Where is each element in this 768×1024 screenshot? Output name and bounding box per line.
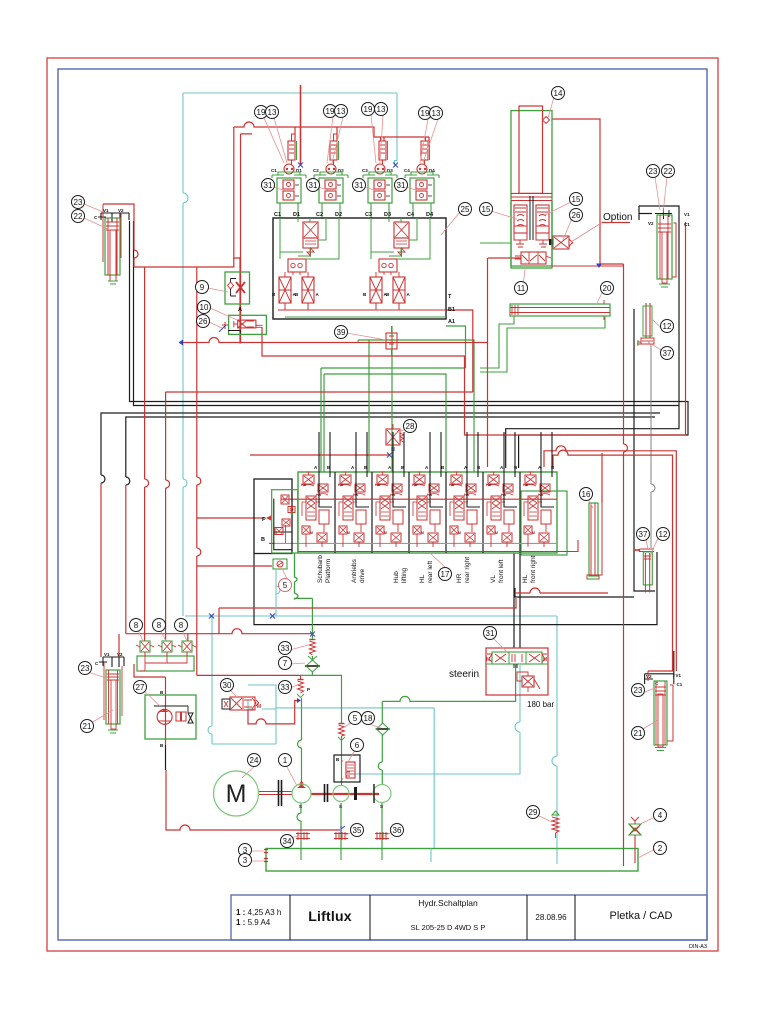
svg-text:13: 13 [377,105,386,114]
svg-text:12: 12 [659,530,668,539]
svg-text:23: 23 [634,686,643,695]
svg-text:10: 10 [200,303,209,312]
wire: black right U around comp 12a [634,309,655,591]
cylinder 22 body [105,218,120,275]
svg-text:front left: front left [498,559,505,583]
svg-text:rear left: rear left [427,561,434,583]
svg-text:12: 12 [663,322,672,331]
solenoid marker left [222,322,228,329]
gray return line [269,542,557,544]
svg-text:steerin: steerin [449,669,479,680]
svg-text:11: 11 [517,284,526,293]
wire: cyan right vertical x557 into tank [552,616,557,848]
svg-text:M: M [486,657,490,663]
svg-text:A1: A1 [448,319,455,325]
wire: black V1 short to bottom-right cylinder [673,651,675,677]
wire: red right long vertical x623 [624,264,628,848]
svg-text:29: 29 [529,808,538,817]
wire: red y391 [487,258,489,467]
svg-text:C4: C4 [407,212,415,218]
svg-text:14: 14 [554,89,563,98]
wire: red top bus y127 (pair) [234,122,429,137]
svg-text:D2: D2 [335,212,342,218]
green outline of block [511,201,552,266]
svg-text:P: P [307,687,310,692]
wire: red left cyl to bus [103,204,138,267]
svg-text:C2: C2 [313,168,319,173]
svg-text:V2: V2 [117,652,123,657]
wire: cyan horiz y708 [276,707,434,709]
svg-text:V2: V2 [648,221,654,226]
svg-text:V1: V1 [104,652,110,657]
red collector line in box [278,309,446,311]
wire: green long horiz y368 [321,367,466,369]
wire: red verticals to valves 8 [145,267,149,641]
red through line [281,498,557,500]
svg-text:18: 18 [364,714,373,723]
svg-text:22: 22 [74,212,83,221]
svg-text:15: 15 [482,205,491,214]
wire: green 33b to pump1 [298,698,302,784]
wire: red y455 left part [250,454,390,456]
solenoid valve 26 right of block [553,236,569,249]
svg-text:5: 5 [353,714,358,723]
svg-text:C1: C1 [684,222,690,227]
svg-text:5: 5 [283,581,288,590]
svg-text:34: 34 [283,837,292,846]
wire: black horizontal y597 valve bank to right [515,588,634,597]
box25 left subassembly [272,218,339,310]
svg-text:39: 39 [337,328,346,337]
svg-text:C1: C1 [677,682,683,687]
svg-text:24: 24 [250,756,259,765]
red bottom line [298,540,578,552]
valve group 2 (C2/D2) [313,141,348,218]
wire: red pump shaft bold [311,793,379,795]
wire: red from valve30 to pump node [248,701,297,724]
svg-text:31: 31 [264,181,273,190]
svg-text:Liftlux: Liftlux [308,908,351,924]
wire: green steering return y701 [382,664,515,701]
svg-text:V2: V2 [118,208,124,213]
cylinder small [288,141,295,160]
svg-text:DIN-A3: DIN-A3 [689,944,707,950]
svg-text:8: 8 [179,621,184,630]
pilot valve [303,222,318,238]
wire: red P junction y675 [197,674,299,676]
svg-text:7: 7 [283,659,288,668]
green bank drain path [295,553,313,599]
counterbalance valve block 15 [514,205,527,233]
extra green box last section [521,491,567,555]
svg-text:6: 6 [355,741,360,750]
svg-text:21: 21 [83,722,92,731]
svg-text:19: 19 [421,109,430,118]
valve body [277,178,301,203]
coupling 3 [354,787,357,800]
svg-text:S: S [299,804,302,809]
svg-text:3: 3 [243,856,248,865]
box 25 outline [273,218,446,319]
wire: green from bank to spring 33 [311,598,313,661]
svg-text:V1: V1 [684,212,690,217]
wire: green long horiz y374 [324,374,446,472]
wire: cyan box around valve 30 solenoid [248,685,276,709]
green bracket [272,172,306,178]
wire: cyan vertical x434 to tank [433,708,435,848]
svg-text:S: S [380,804,383,809]
wire: red B1 from box25 down [446,310,473,392]
coupling 2 [325,784,328,802]
green collector line in box [285,316,446,318]
wire: red drops to rotary unions [295,127,429,141]
valve group 1 (C1/D1) [271,141,306,218]
valve group 3 (C3/D3) [362,141,397,218]
svg-text:D4: D4 [426,212,434,218]
wire: red horiz y267 to comp9 [134,258,234,267]
svg-text:drive: drive [359,569,366,583]
wire: red line to comp5 [197,565,272,567]
svg-text:31: 31 [309,181,318,190]
wire: cyan drop to valve groups [395,93,398,165]
wire: cyan horizontal into steering [185,615,557,617]
wire: green verticals pumps [341,736,343,785]
svg-text:26: 26 [572,211,581,220]
svg-text:13: 13 [268,108,277,117]
wire: red horiz y392 [166,391,473,393]
svg-text:20: 20 [603,284,612,293]
dual orifice [288,259,306,272]
wire: black pair down to steering valve [514,553,520,648]
svg-text:Hydr.Schaltplan: Hydr.Schaltplan [418,898,478,908]
wire: red P line to bank inlet [197,517,264,519]
svg-text:HL: HL [522,574,529,583]
svg-text:VL: VL [490,575,497,583]
wire: red path valve8 box to pump27 [134,664,166,745]
svg-text:8: 8 [157,621,162,630]
svg-text:V1: V1 [103,208,109,213]
wire: black horizontal y625 steering [254,552,657,625]
svg-text:lifting: lifting [401,567,408,583]
svg-text:2: 2 [658,844,663,853]
wire: red bold center vertical [300,85,302,165]
svg-text:rear right: rear right [464,557,471,583]
comp 5a pressure tap [273,559,287,616]
svg-text:37: 37 [639,530,648,539]
wire: green drops to valve bank [321,368,324,472]
svg-text:D1: D1 [293,212,300,218]
svg-text:16: 16 [582,490,591,499]
sections s1..s7 [301,432,332,547]
svg-text:V2: V2 [646,674,652,679]
svg-text:C3: C3 [365,212,372,218]
svg-text:35: 35 [353,826,362,835]
svg-text:3: 3 [243,846,248,855]
svg-text:19: 19 [326,107,335,116]
wire: black bus B [134,221,680,406]
svg-text:33: 33 [281,683,290,692]
valve 11 lowering brake valve [521,252,546,264]
wire: cyan vertical x212 [208,616,212,744]
svg-text:C4: C4 [404,168,410,173]
outer red frame [47,58,718,951]
svg-text:Pletka / CAD: Pletka / CAD [610,910,673,922]
svg-text:1 : 4,25 A3 h: 1 : 4,25 A3 h [236,908,281,917]
wire: green check7 to junction [311,671,313,675]
wire: black bus 3 upper part [101,413,660,483]
valve group 4 (C4/D4) [404,141,439,218]
svg-text:180 bar: 180 bar [527,700,554,709]
svg-text:C1: C1 [271,168,277,173]
wire: red pair s7 to bottom-right cylinder [544,446,676,671]
svg-text:36: 36 [393,826,402,835]
svg-text:1 : 5.9 A4: 1 : 5.9 A4 [236,918,271,927]
svg-text:C1: C1 [274,212,281,218]
svg-text:C3: C3 [362,168,368,173]
svg-text:33: 33 [281,644,290,653]
svg-text:Schubarb: Schubarb [317,555,324,583]
svg-text:C2: C2 [316,212,323,218]
svg-text:A: A [238,307,242,313]
svg-text:M: M [257,704,261,710]
pump 3 [373,785,391,803]
wire: red y608 long [219,598,516,608]
wire: black bus 4 upper part [126,417,655,485]
relief inside [522,676,534,687]
svg-text:22: 22 [664,167,673,176]
A/B labels [314,465,555,470]
svg-text:D3: D3 [384,212,391,218]
svg-text:9: 9 [200,283,205,292]
svg-text:13: 13 [337,107,346,116]
svg-text:25: 25 [461,205,470,214]
wire: red top feed drops with leaders [292,127,430,141]
svg-text:23: 23 [81,664,90,673]
svg-text:Hub: Hub [393,571,400,583]
wire: cyan main vertical left [182,93,184,616]
svg-text:37: 37 [663,349,672,358]
wire: red y593 from bank [516,588,608,593]
svg-text:27: 27 [136,683,145,692]
wire: black V1-line top-right cylinder down with shelf [506,220,679,468]
shuttle cylinders [279,277,291,303]
svg-text:front right: front right [530,555,537,583]
svg-text:23: 23 [649,167,658,176]
svg-text:30: 30 [223,681,232,690]
svg-text:17: 17 [441,570,450,579]
wire: cyan top horizontal [183,92,397,94]
svg-text:1: 1 [283,756,288,765]
valve bank outer [269,472,578,555]
svg-text:21: 21 [634,729,643,738]
wire: green y340 from box25 bottom [358,340,474,472]
svg-text:P: P [262,517,266,523]
rotary union circle [291,160,293,164]
svg-text:4: 4 [658,811,663,820]
rotated section labels [317,555,537,583]
title block [231,895,707,940]
pump 1 [292,784,311,803]
svg-text:31: 31 [486,629,495,638]
svg-text:HR: HR [456,573,463,583]
collector green box [137,656,194,671]
svg-text:Option: Option [603,212,632,223]
wire: red cyl14 to right loop [552,119,624,264]
svg-text:M: M [226,780,247,808]
svg-text:M: M [543,657,547,663]
svg-text:Antriebs: Antriebs [351,558,358,583]
svg-text:B: B [261,537,265,543]
wire: red continuation of bus3/bus4 below breaks [100,483,102,657]
svg-text:13: 13 [432,109,441,118]
svg-text:HL: HL [419,574,426,583]
wire: red y634 valves8 feed [126,629,313,634]
svg-text:31: 31 [355,181,364,190]
wire: black pump27 outlet segment [165,745,167,770]
svg-text:19: 19 [364,105,373,114]
svg-text:S: S [339,804,342,809]
svg-text:28.08.96: 28.08.96 [535,913,567,922]
svg-text:Platform: Platform [325,559,332,583]
wire: cyan horiz y744 [212,709,276,744]
svg-text:8: 8 [134,621,139,630]
wire: cyan horiz y774 [348,773,520,775]
wire: green check18 drop [381,701,383,724]
green wires [280,218,310,259]
inlet block [254,479,298,554]
svg-text:26: 26 [199,317,208,326]
motor M [214,771,259,816]
spring 33a [309,641,315,655]
svg-text:28: 28 [406,422,415,431]
check valve 7 diamond [305,665,320,667]
svg-text:SL 205-25 D 4WD S P: SL 205-25 D 4WD S P [411,923,486,932]
svg-text:B1: B1 [448,307,455,313]
wire: green y676 to spring 5b [299,675,342,723]
wire: red comp16 feed [601,453,603,503]
legs [280,203,298,218]
wire: red long y342 [183,338,488,343]
svg-text:31: 31 [397,181,406,190]
wire: red bold drop through comp9/10 [239,257,241,344]
box25 right subassembly [363,218,430,310]
svg-text:V1: V1 [676,673,682,678]
wire: black bus A from left brake cylinder over to right and down [130,221,689,468]
wire: red motor shaft double [258,792,292,795]
wire: green pump outlets down to tank [297,803,301,848]
wire: red long y356 to right riser [262,222,686,435]
wire: green A1 line from box25 right [446,326,466,368]
wire: black gray drop comp 12b [650,344,652,548]
wire: red y830 to pumps [166,770,340,830]
svg-text:19: 19 [257,108,266,117]
inner blue frame [58,69,707,940]
pump 2 [333,786,349,802]
svg-text:23: 23 [74,198,83,207]
svg-text:15: 15 [572,195,581,204]
cylinder C-22 left head box [98,213,129,222]
wire: cyan steering drain x520 [515,665,520,774]
spring 33b [298,681,304,693]
wire: red valve11 line left [488,257,521,259]
wire: red x219 corner down [218,608,220,634]
coupling 1 [279,780,282,806]
